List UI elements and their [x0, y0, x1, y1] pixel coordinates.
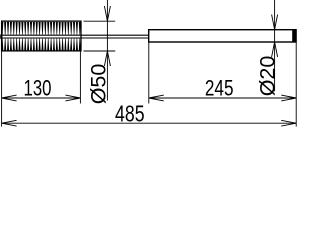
svg-text:485: 485: [115, 101, 145, 127]
dimension line diameter50 vertical: [106, 0, 108, 101]
arrow diameter50 top: [104, 6, 110, 21]
arrow diameter20 bottom: [272, 42, 278, 57]
dimension line 485: [2, 122, 297, 124]
arrow diameter20 top: [272, 15, 278, 30]
arrow 485 left: [2, 120, 17, 126]
arrow 130 left: [2, 95, 17, 101]
arrow 245 left: [149, 95, 164, 101]
extension line left below brush: [1, 52, 3, 127]
svg-text:Ø50: Ø50: [87, 64, 111, 105]
svg-text:130: 130: [24, 76, 52, 101]
dimension line diameter20 vertical: [274, 0, 276, 91]
handle end cap: [292, 29, 296, 42]
brush bristles lower band: [1, 38, 81, 50]
shaft lower line: [2, 37, 150, 39]
svg-text:245: 245: [205, 76, 234, 101]
dimension line 245: [149, 97, 296, 99]
handle outline: [149, 30, 296, 42]
arrow 245 right: [281, 95, 296, 101]
dimension line 130: [2, 97, 81, 99]
extension line diameter50 bottom: [84, 50, 116, 52]
brush body outline: [2, 21, 81, 51]
arrow 485 right: [281, 120, 296, 126]
extension line handle left: [148, 43, 150, 104]
extension line diameter50 top: [84, 20, 116, 22]
extension line right: [295, 43, 297, 127]
arrow diameter50 bottom: [104, 51, 110, 66]
svg-text:Ø20: Ø20: [255, 56, 279, 97]
arrow 130 right: [65, 95, 80, 101]
shaft upper line: [2, 34, 150, 36]
brush core end blob: [0, 34, 2, 38]
extension line brush right: [79, 52, 81, 104]
brush bristles upper band: [1, 22, 81, 35]
